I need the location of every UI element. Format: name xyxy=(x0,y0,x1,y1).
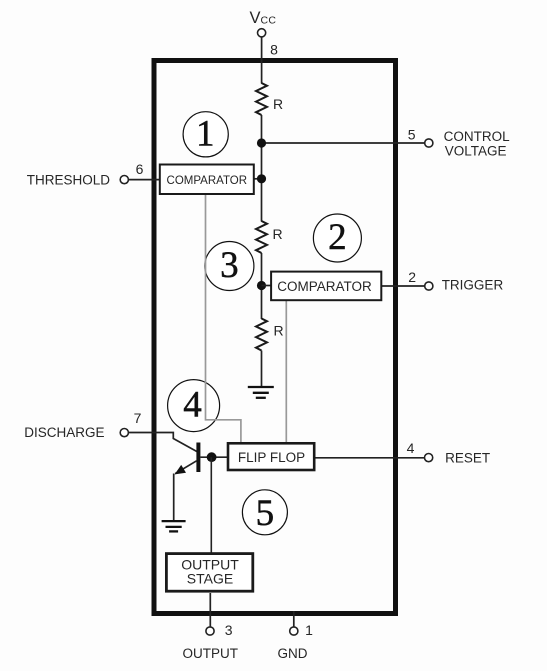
svg-text:1: 1 xyxy=(305,622,313,638)
resistor R1 xyxy=(256,83,267,115)
output terminal (pin 3) xyxy=(206,627,214,635)
ground (transistor emitter) xyxy=(162,521,186,531)
wire R2 to R3 xyxy=(261,253,263,319)
reset terminal (pin 4) xyxy=(425,454,433,462)
svg-text:RESET: RESET xyxy=(445,450,490,465)
discharge terminal (pin 7) xyxy=(120,429,128,437)
node: transistor-flip flop junction xyxy=(207,452,217,462)
circle marker 3 xyxy=(205,242,254,291)
svg-text:COMPARATOR: COMPARATOR xyxy=(167,175,248,187)
trigger terminal (pin 2) xyxy=(425,282,433,290)
wire emitter to ground xyxy=(173,474,175,521)
node: control voltage tap xyxy=(257,138,266,147)
transistor Q1 base bar xyxy=(196,443,200,473)
gnd terminal (pin 1) xyxy=(290,627,298,635)
wire Vcc to R1 xyxy=(261,37,263,84)
svg-text:OUTPUT: OUTPUT xyxy=(183,646,239,661)
svg-text:COMPARATOR: COMPARATOR xyxy=(277,279,372,294)
svg-text:FLIP FLOP: FLIP FLOP xyxy=(238,450,305,465)
reset wire xyxy=(315,457,425,459)
discharge wire xyxy=(129,433,197,452)
threshold wire xyxy=(129,179,160,181)
node: threshold comparator tap xyxy=(257,174,266,183)
ground (resistor chain) xyxy=(248,387,274,398)
transistor Q1 base wire to flip flop xyxy=(200,456,228,458)
svg-text:1: 1 xyxy=(196,113,215,154)
circle marker 4 xyxy=(168,380,220,432)
svg-text:V: V xyxy=(250,9,261,27)
svg-text:DISCHARGE: DISCHARGE xyxy=(24,425,104,440)
svg-text:CC: CC xyxy=(261,15,277,27)
svg-text:R: R xyxy=(273,322,283,338)
output wire through case xyxy=(209,593,211,627)
svg-text:R: R xyxy=(272,226,282,242)
wire to control voltage pin xyxy=(262,142,425,144)
wire R3 to ground xyxy=(261,351,263,387)
comparator U1 box xyxy=(160,165,254,195)
output stage U4 box xyxy=(166,554,252,592)
svg-text:GND: GND xyxy=(278,646,308,661)
svg-text:STAGE: STAGE xyxy=(187,571,233,587)
svg-text:3: 3 xyxy=(225,622,233,638)
threshold terminal (pin 6) xyxy=(120,176,128,184)
svg-text:R: R xyxy=(273,96,283,112)
svg-text:CONTROL: CONTROL xyxy=(444,129,510,144)
svg-text:2: 2 xyxy=(328,217,347,258)
circle marker 2 xyxy=(313,214,361,262)
svg-text:4: 4 xyxy=(183,385,202,426)
svg-text:4: 4 xyxy=(407,440,415,456)
IC boundary box xyxy=(154,61,396,614)
Vcc terminal (pin 8) xyxy=(258,29,266,37)
gnd wire xyxy=(293,611,295,627)
svg-text:5: 5 xyxy=(256,493,275,534)
node: trigger comparator tap xyxy=(257,281,266,290)
svg-text:TRIGGER: TRIGGER xyxy=(442,278,504,293)
svg-text:7: 7 xyxy=(134,410,142,426)
transistor Q1 emitter xyxy=(175,461,196,474)
transistor Q1 emitter arrow xyxy=(175,465,186,475)
circle marker 5 xyxy=(242,490,287,535)
svg-text:2: 2 xyxy=(408,269,416,285)
resistor R2 xyxy=(256,221,267,253)
svg-text:5: 5 xyxy=(408,127,416,143)
comparator U2 box xyxy=(271,272,381,301)
wire R1 to R2 xyxy=(261,115,263,222)
svg-text:3: 3 xyxy=(220,245,239,286)
flip flop U3 box xyxy=(228,443,314,470)
wire comparator U1 to node xyxy=(254,178,262,180)
control voltage terminal (pin 5) xyxy=(425,139,433,147)
comparator U2 output wire xyxy=(285,301,287,443)
svg-text:6: 6 xyxy=(136,161,144,177)
trigger wire xyxy=(381,285,425,287)
circle marker 1 xyxy=(183,112,228,157)
comparator U1 output wire xyxy=(206,195,241,443)
svg-text:VOLTAGE: VOLTAGE xyxy=(445,144,507,159)
resistor R3 xyxy=(256,319,267,351)
wire flip flop node to output stage xyxy=(210,457,212,553)
svg-text:THRESHOLD: THRESHOLD xyxy=(27,172,111,187)
wire node to comparator U2 xyxy=(262,285,272,287)
svg-text:8: 8 xyxy=(270,42,278,58)
